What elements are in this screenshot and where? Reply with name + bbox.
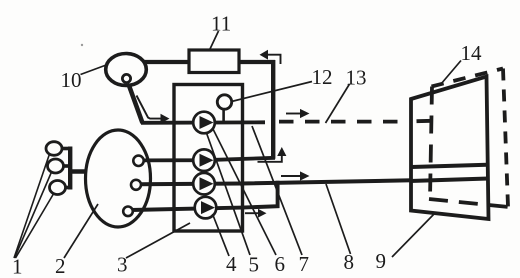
- box 3: pump group housing: [174, 85, 243, 232]
- filter 11: rectangle: [189, 50, 239, 73]
- gauge 12: small circle with stub: [217, 95, 231, 109]
- node: tank outlet s1: [133, 156, 143, 166]
- leader line for label 10: [81, 65, 108, 75]
- leader line for label 6: [213, 129, 276, 255]
- wire: row 3 line from tank through box, long line 8 to panel: [139, 179, 488, 185]
- leader line for label 4: [213, 214, 230, 256]
- node: inlet circle c1: [46, 142, 62, 156]
- wire: dashed control line 13 to panel: [279, 120, 409, 124]
- wire: row 2 line from tank through pump P2, right and up to return: [142, 158, 275, 161]
- leader line for label 14: [441, 61, 461, 85]
- leader lines for label 1: [14, 154, 54, 258]
- wire: row 4 line from tank with riser joining line 8: [131, 181, 278, 210]
- leader line for label 3: [126, 223, 190, 258]
- wire: stub from c1 to manifold: [61, 147, 71, 151]
- node: inlet circle c3: [50, 181, 66, 195]
- leader line for label 7: [252, 126, 302, 255]
- pump P1 (item 7): [193, 112, 215, 134]
- wire: vertical return pipe at right: [271, 60, 275, 159]
- svg-text:10: 10: [61, 68, 82, 92]
- wire: stub from c3 to manifold: [65, 186, 72, 190]
- leader line for label 9: [392, 212, 436, 257]
- wire: stub from gauge 12 down to row 1: [222, 109, 225, 121]
- pump P2 (item 6): [193, 149, 215, 171]
- panel 9: display screen in perspective: [411, 77, 489, 220]
- arrow: flow into pump box at row 1: [137, 96, 170, 124]
- wire: row 1 line through pump P1: [141, 120, 265, 124]
- svg-text:13: 13: [346, 66, 367, 90]
- wire: vertical manifold line: [68, 147, 72, 190]
- leader line for label 2: [64, 204, 98, 258]
- wire: panel middle divider line: [412, 165, 488, 167]
- svg-text:5: 5: [249, 253, 260, 277]
- ellipse: tank 2: [86, 130, 151, 227]
- svg-text:4: 4: [226, 252, 237, 276]
- arrow: flow up into return pipe: [258, 147, 287, 162]
- leader line for label 11: [210, 31, 219, 49]
- svg-text:1: 1: [12, 255, 23, 278]
- svg-text:6: 6: [275, 252, 286, 276]
- wire: stub from c2 to manifold: [63, 164, 71, 168]
- screen 14: dashed frame left edge: [430, 87, 432, 200]
- motor 10: circle with hub: [106, 54, 147, 86]
- screen 14: dashed frame right edge: [503, 69, 508, 207]
- wire: last dash of line 13 inside panel: [417, 119, 433, 123]
- screen 14: dashed frame bottom edge: [429, 199, 509, 207]
- screen 14: dashed frame top edge: [432, 69, 504, 87]
- node: tank outlet s2: [131, 180, 141, 190]
- scan speck: [81, 44, 83, 46]
- leader line for label 8: [326, 184, 351, 254]
- arrow: flow right on dashed line 13: [286, 109, 310, 118]
- wire: pipe from motor 10 to filter 11: [144, 60, 190, 64]
- wire: manifold to tank 2: [70, 169, 87, 173]
- svg-text:8: 8: [344, 250, 355, 274]
- svg-text:3: 3: [117, 253, 128, 277]
- arrow: flow right below row 4: [245, 209, 267, 218]
- svg-text:9: 9: [376, 249, 387, 273]
- wire: line 8 continuing across panel: [410, 179, 489, 182]
- leader line for label 5: [207, 133, 251, 255]
- svg-text:14: 14: [461, 41, 483, 65]
- leader line for label 13: [326, 84, 350, 123]
- pump P3 (item 5): [193, 173, 215, 195]
- arrow: flow right on line 8: [281, 171, 310, 180]
- pump P4 (item 4): [195, 197, 217, 219]
- svg-text:12: 12: [312, 65, 333, 89]
- node: inlet circle c2: [48, 159, 64, 173]
- arrow: flow left at top return corner: [260, 50, 281, 64]
- wire: pipe from filter 11 to right corner: [239, 60, 275, 64]
- leader line for label 12: [232, 82, 313, 102]
- svg-text:11: 11: [211, 12, 231, 36]
- svg-text:7: 7: [299, 252, 310, 276]
- node: hub on motor 10: [122, 74, 130, 82]
- svg-text:2: 2: [55, 254, 66, 278]
- wire: thick link from motor 10 small hub down to row 1: [127, 80, 143, 123]
- node: tank outlet s3: [123, 207, 133, 217]
